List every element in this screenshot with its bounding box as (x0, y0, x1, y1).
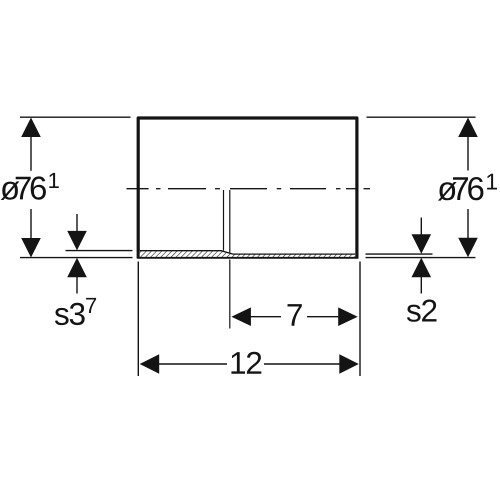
dim s3: upper tail (76, 214, 78, 232)
wall section hatch fill (140, 251, 355, 257)
dim left diameter: label (1, 173, 59, 200)
dim left diameter: top arrow (21, 118, 41, 138)
extension line top-left (20, 116, 131, 118)
dim 7: line (249, 316, 281, 318)
extension line bottom-left (137, 262, 139, 377)
dim right diameter: label (438, 174, 497, 201)
dim 7: left arrow (231, 307, 251, 326)
dim s3: label (55, 303, 85, 325)
dim s2: down arrow (412, 234, 432, 254)
dim s2: upper tail (420, 218, 422, 236)
dim right diameter: bottom arrow (458, 238, 478, 258)
dim 7: label (288, 304, 302, 326)
dim 12: line (158, 363, 227, 365)
dim s3: up arrow (67, 258, 87, 278)
wall outer surface line (bottom of body) (137, 257, 359, 259)
extension line right inner wall (366, 253, 433, 255)
dim 12: right arrow (339, 354, 359, 373)
dim left diameter: line (30, 137, 32, 171)
extension line left inner wall (66, 250, 133, 252)
dim s2: label (407, 300, 437, 322)
dim left diameter: bottom arrow (21, 238, 41, 258)
dim 7: right arrow (338, 307, 358, 326)
socket depth line B / extension for dim 7 (229, 190, 231, 254)
extension line left outer wall (20, 257, 133, 259)
dim s3: lower tail (76, 277, 78, 294)
dim right diameter: line (467, 137, 469, 171)
dim 12: left arrow (140, 354, 160, 373)
dim right diameter: top arrow (458, 118, 478, 138)
centerline (dash-dot) (127, 188, 371, 190)
extension line top-right (367, 116, 476, 118)
dim 12: label (231, 352, 261, 374)
coupling body outline (top, left, right edges) (138, 118, 357, 259)
dim s2: lower tail (420, 277, 422, 294)
dim s2: up arrow (412, 258, 432, 278)
extension line bottom-right (359, 262, 361, 377)
socket depth line A (inner) (223, 190, 225, 251)
extension line right outer wall (366, 257, 476, 259)
wall inner surface line (socket, left) (140, 251, 355, 254)
dim s3: down arrow (67, 231, 87, 251)
